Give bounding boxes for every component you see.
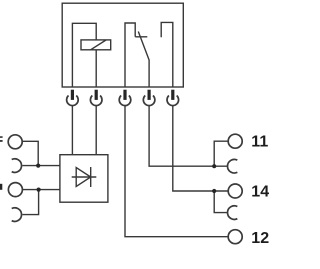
svg-text:11: 11	[251, 134, 268, 151]
svg-text:12: 12	[251, 230, 269, 247]
svg-text:14: 14	[251, 184, 269, 201]
